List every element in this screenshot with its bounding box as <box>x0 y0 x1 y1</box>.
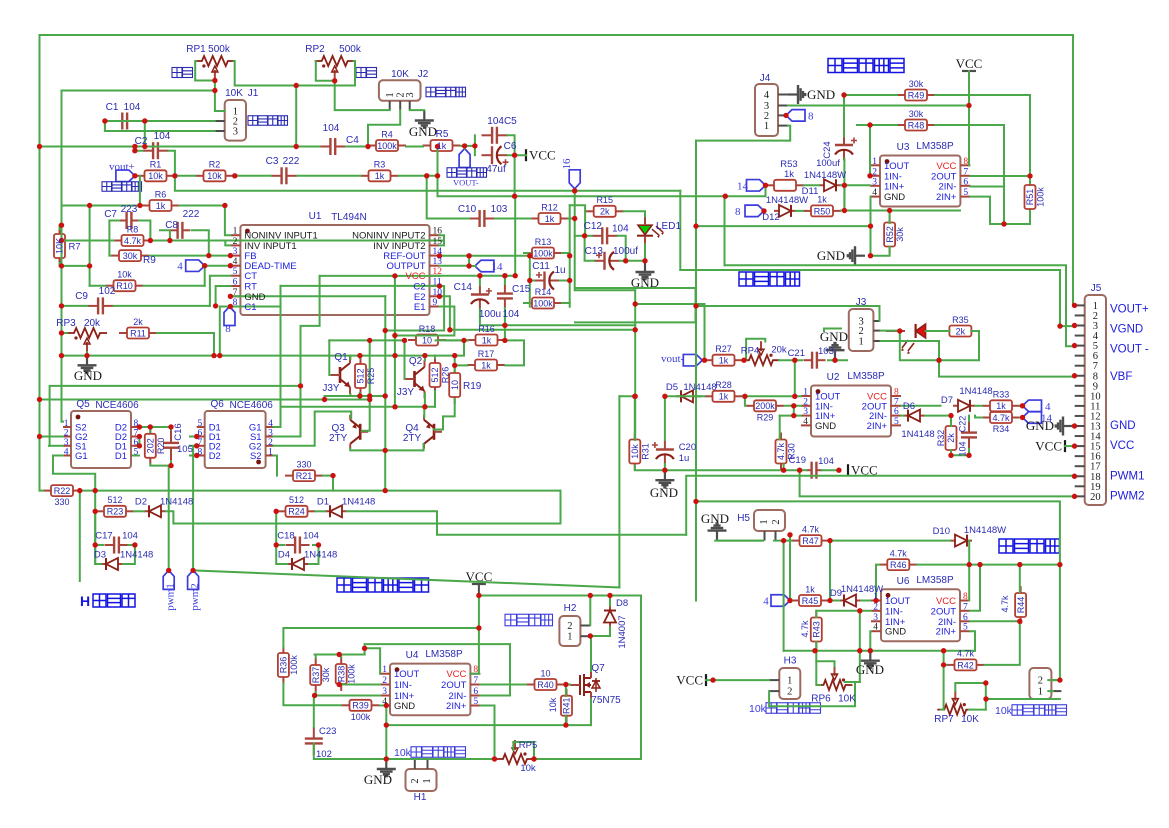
potentiometer RP6 <box>817 666 853 690</box>
resistor R13 100k <box>524 248 562 259</box>
svg-text:H5: H5 <box>737 513 750 524</box>
wire <box>190 436 197 438</box>
svg-text:R14: R14 <box>535 287 552 297</box>
svg-text:GND: GND <box>820 329 848 344</box>
junction <box>59 223 64 228</box>
junction <box>142 144 147 149</box>
label 电流取样 <box>447 168 487 178</box>
wire <box>313 544 319 546</box>
junction <box>632 394 637 399</box>
junction <box>222 203 227 208</box>
capacitor C4 104 <box>320 138 346 155</box>
svg-text:2OUT: 2OUT <box>931 606 957 617</box>
wire <box>704 359 705 361</box>
junction <box>502 273 507 278</box>
svg-text:2: 2 <box>873 602 878 612</box>
svg-text:VCC: VCC <box>1110 440 1134 452</box>
resistor R33 1k <box>982 400 1020 411</box>
wire <box>464 146 466 149</box>
capacitor C17 104 <box>105 537 129 554</box>
label 10k负温度电阻 right <box>1012 705 1067 716</box>
resistor R43 4.7k <box>811 611 822 649</box>
svg-text:4: 4 <box>872 188 877 198</box>
svg-text:4.7k: 4.7k <box>890 548 908 558</box>
wire <box>133 455 139 457</box>
svg-text:R37: R37 <box>311 667 321 684</box>
wire <box>901 405 941 407</box>
junction <box>842 208 847 213</box>
wire <box>166 511 561 523</box>
svg-text:104: 104 <box>958 441 968 456</box>
wire <box>824 329 841 332</box>
svg-text:30k: 30k <box>895 227 905 242</box>
junction <box>563 722 568 727</box>
svg-text:Q6: Q6 <box>210 399 224 410</box>
wire <box>644 244 646 261</box>
junction <box>723 194 728 199</box>
label 限压 <box>172 68 193 78</box>
wire <box>60 225 62 229</box>
wire <box>380 705 386 707</box>
junction <box>867 173 872 178</box>
op-amp U6 LM358P <box>871 589 970 641</box>
svg-text:9: 9 <box>433 298 438 308</box>
wire <box>95 544 103 546</box>
wire <box>785 405 802 407</box>
svg-text:1N4148W: 1N4148W <box>964 525 1006 536</box>
port pwm1 <box>163 570 174 589</box>
wire <box>138 437 140 446</box>
wire <box>790 600 792 602</box>
svg-text:5: 5 <box>473 697 478 707</box>
svg-text:20: 20 <box>1090 492 1101 503</box>
wire <box>870 197 872 256</box>
svg-text:10k: 10k <box>148 171 163 181</box>
junction <box>783 113 788 118</box>
wire <box>384 296 386 450</box>
junction <box>435 173 440 178</box>
wire <box>216 286 231 306</box>
wire <box>789 535 791 601</box>
wire <box>436 399 455 430</box>
wire <box>168 466 170 571</box>
junction <box>137 424 142 429</box>
svg-text:2k: 2k <box>956 326 966 336</box>
svg-text:2k: 2k <box>946 433 956 443</box>
junction <box>367 338 372 343</box>
resistor R11 2k <box>119 328 157 339</box>
svg-text:D2: D2 <box>209 451 221 462</box>
wire <box>744 396 747 406</box>
svg-text:5: 5 <box>134 448 139 458</box>
junction <box>212 88 217 93</box>
wire <box>315 692 317 696</box>
port 4 mid right <box>1023 400 1042 412</box>
junction <box>633 394 638 399</box>
wire <box>985 621 1020 665</box>
wire <box>1029 176 1031 183</box>
svg-text:VOUT-: VOUT- <box>453 178 479 188</box>
wire <box>968 541 970 565</box>
svg-text:R23: R23 <box>107 507 124 517</box>
wire <box>1029 211 1031 224</box>
junction <box>791 403 796 408</box>
svg-text:GND: GND <box>701 511 729 526</box>
wire <box>570 205 585 211</box>
svg-text:H1: H1 <box>414 792 427 803</box>
junction <box>563 682 568 687</box>
wire <box>438 195 766 197</box>
svg-text:2IN+: 2IN+ <box>446 701 467 712</box>
wire <box>717 540 763 542</box>
svg-text:J2: J2 <box>418 69 429 80</box>
resistor R52 30k <box>884 216 895 254</box>
svg-text:3: 3 <box>382 687 387 697</box>
svg-text:1: 1 <box>764 121 769 132</box>
wire <box>424 356 426 360</box>
wire <box>406 146 423 148</box>
svg-text:LM358P: LM358P <box>425 649 463 660</box>
svg-text:1N4148: 1N4148 <box>342 497 375 508</box>
svg-text:104: 104 <box>124 102 141 113</box>
svg-text:2k: 2k <box>600 207 610 217</box>
wire <box>822 469 839 471</box>
label 10k负温度电阻 fan <box>411 747 466 758</box>
wire <box>590 636 592 671</box>
svg-text:1N4148W: 1N4148W <box>766 195 808 206</box>
svg-text:VGND: VGND <box>1110 324 1143 336</box>
label 风扇接口 <box>505 614 553 626</box>
wire <box>295 86 297 147</box>
junction <box>967 562 972 567</box>
junction <box>607 593 612 598</box>
svg-text:R46: R46 <box>890 560 907 570</box>
wire <box>841 184 870 186</box>
wire <box>39 35 41 491</box>
svg-text:3: 3 <box>233 127 238 138</box>
wire <box>440 296 450 330</box>
junction <box>791 413 796 418</box>
junction <box>213 303 218 308</box>
svg-text:500k: 500k <box>339 44 362 55</box>
wire <box>440 255 530 257</box>
svg-text:4: 4 <box>382 697 387 707</box>
svg-text:5: 5 <box>197 419 202 429</box>
resistor R48 30k <box>897 120 935 131</box>
capacitor C8 222 <box>170 222 190 239</box>
wire <box>149 427 151 432</box>
wire <box>368 110 400 146</box>
junction <box>787 598 792 603</box>
title 短路保护 <box>739 272 800 286</box>
junction <box>693 499 698 504</box>
junction <box>1057 562 1062 567</box>
wire <box>620 260 626 262</box>
svg-text:GND: GND <box>807 87 835 102</box>
svg-text:H: H <box>80 593 90 609</box>
op-amp U4 LM358P <box>380 664 480 716</box>
wire <box>1020 417 1023 419</box>
capacitor C16 105 <box>163 430 179 460</box>
wire <box>157 333 214 356</box>
svg-text:C14: C14 <box>454 282 473 293</box>
junction <box>365 144 370 149</box>
diode D9 1N4148W <box>839 595 861 607</box>
svg-text:C19: C19 <box>789 455 806 466</box>
svg-text:5: 5 <box>963 188 968 198</box>
svg-text:1u: 1u <box>554 265 565 276</box>
svg-text:8: 8 <box>197 448 202 458</box>
svg-text:U3: U3 <box>897 142 910 153</box>
svg-text:30k: 30k <box>909 109 924 119</box>
wire <box>986 698 1060 700</box>
wire <box>504 325 506 340</box>
junction <box>392 404 397 409</box>
svg-text:1IN-: 1IN- <box>885 606 903 617</box>
wire <box>569 218 575 220</box>
svg-text:R40: R40 <box>537 680 554 690</box>
wire <box>506 339 515 341</box>
label 电压取样 <box>102 182 142 192</box>
junction <box>1020 403 1025 408</box>
capacitor C21 103 <box>804 352 826 369</box>
resistor R12 1k <box>531 213 569 224</box>
wire <box>204 266 206 286</box>
svg-text:1N4148: 1N4148 <box>683 382 716 393</box>
svg-text:4: 4 <box>1045 401 1051 413</box>
resistor R15 2k <box>586 206 624 217</box>
svg-text:GND: GND <box>394 701 415 712</box>
svg-text:4.7k: 4.7k <box>800 620 810 638</box>
svg-text:1: 1 <box>385 92 396 97</box>
capacitor C19 104 <box>806 462 822 479</box>
wire <box>282 406 435 408</box>
connector H2 <box>559 616 580 646</box>
svg-text:100uf: 100uf <box>816 158 840 169</box>
wire <box>939 331 979 360</box>
svg-text:1: 1 <box>233 227 238 237</box>
junction <box>384 722 389 727</box>
junction <box>424 173 429 178</box>
wire <box>210 276 231 306</box>
svg-text:C10: C10 <box>458 204 477 215</box>
svg-text:RP3: RP3 <box>56 318 76 329</box>
wire <box>404 340 406 379</box>
svg-text:8: 8 <box>473 665 478 675</box>
wire <box>169 151 175 176</box>
wire <box>479 276 481 285</box>
svg-text:8: 8 <box>134 419 139 429</box>
junction <box>274 509 279 514</box>
svg-text:C11: C11 <box>532 261 550 272</box>
junction <box>742 394 747 399</box>
junction <box>588 593 593 598</box>
junction <box>447 327 452 332</box>
svg-text:13: 13 <box>433 257 443 267</box>
diode D4 1N4148 <box>287 558 309 570</box>
junction <box>868 223 873 228</box>
wire <box>394 276 396 407</box>
svg-text:100k: 100k <box>289 655 299 675</box>
wire <box>514 155 516 196</box>
junction <box>476 625 481 630</box>
junction <box>1001 221 1006 226</box>
wire <box>434 429 436 431</box>
wire <box>562 252 570 254</box>
wire <box>479 596 641 760</box>
svg-text:C8: C8 <box>165 220 178 231</box>
wire <box>129 544 135 546</box>
junction <box>966 453 971 458</box>
junction <box>172 173 177 178</box>
svg-text:104: 104 <box>612 224 629 235</box>
mosfet Q6 NCE4606 <box>197 411 274 468</box>
junction <box>37 144 42 149</box>
junction <box>330 473 335 478</box>
svg-text:C21: C21 <box>788 348 805 359</box>
svg-text:R27: R27 <box>715 344 732 354</box>
connector H1 <box>406 769 437 791</box>
port vout+ <box>116 170 135 182</box>
svg-text:D8: D8 <box>616 598 628 609</box>
junction <box>194 434 199 439</box>
wire <box>665 395 705 397</box>
junction <box>868 253 873 258</box>
svg-text:104C5: 104C5 <box>487 116 517 127</box>
junction <box>710 677 715 682</box>
svg-text:GND: GND <box>1026 418 1054 433</box>
junction <box>384 756 389 761</box>
svg-text:R3: R3 <box>374 160 386 170</box>
svg-text:16: 16 <box>561 158 573 170</box>
junction <box>887 208 892 213</box>
wire <box>618 396 620 587</box>
svg-text:R18: R18 <box>419 324 436 334</box>
svg-text:R12: R12 <box>541 202 558 212</box>
svg-text:4: 4 <box>268 419 273 429</box>
svg-text:4: 4 <box>177 261 183 273</box>
junction <box>298 383 303 388</box>
wire <box>970 565 980 611</box>
wire <box>190 455 197 457</box>
wire <box>335 81 390 110</box>
junction <box>461 338 466 343</box>
junction <box>1027 173 1032 178</box>
junction <box>797 468 802 473</box>
svg-text:7: 7 <box>894 397 899 407</box>
svg-text:1N4148: 1N4148 <box>120 550 153 561</box>
resistor R28 1k <box>705 391 743 402</box>
svg-text:VOUT -: VOUT - <box>1110 344 1149 356</box>
wire <box>941 665 944 710</box>
svg-text:500k: 500k <box>208 44 231 55</box>
svg-text:7: 7 <box>963 602 968 612</box>
connector J3 <box>849 309 874 351</box>
junction <box>1072 303 1077 308</box>
svg-text:102: 102 <box>316 749 332 760</box>
svg-text:C1: C1 <box>106 102 119 113</box>
ground at J3 C21 <box>826 343 845 360</box>
svg-text:1: 1 <box>268 448 273 458</box>
junction <box>168 463 173 468</box>
junction <box>337 652 342 657</box>
capacitor C5 104 <box>482 127 508 144</box>
wire <box>505 324 635 326</box>
wire <box>779 416 781 439</box>
svg-text:100u: 100u <box>479 309 501 320</box>
junction <box>966 103 971 108</box>
svg-text:2: 2 <box>787 687 792 698</box>
svg-text:U2: U2 <box>827 372 840 383</box>
svg-text:VBF: VBF <box>1110 371 1132 383</box>
wire <box>350 449 423 451</box>
wire <box>320 275 440 277</box>
svg-text:LM358P: LM358P <box>847 371 885 382</box>
svg-text:100k: 100k <box>377 141 397 151</box>
resistor R10 10k <box>106 280 144 291</box>
junction <box>741 358 746 363</box>
wire <box>524 302 530 304</box>
svg-text:vout+: vout+ <box>109 161 135 173</box>
junction <box>761 208 766 213</box>
wire <box>170 427 172 430</box>
junction <box>466 253 471 258</box>
svg-text:2: 2 <box>233 237 238 247</box>
svg-text:1OUT: 1OUT <box>394 669 420 680</box>
diode D2 1N4148 <box>144 505 166 517</box>
resistor R2 10k <box>196 170 234 181</box>
junction <box>383 488 388 493</box>
wire <box>969 709 986 711</box>
wire <box>313 696 315 728</box>
svg-text:10K: 10K <box>391 69 409 80</box>
potentiometer RP7 wiper-up <box>937 691 973 715</box>
svg-text:14: 14 <box>737 181 749 193</box>
connector J2 <box>379 80 421 101</box>
transistor Q3 <box>350 415 368 449</box>
wire <box>328 340 331 375</box>
resistor R34 4.7k <box>982 412 1020 423</box>
diode D5 1N4148 <box>676 390 698 402</box>
wire <box>423 407 425 417</box>
wire <box>274 286 281 427</box>
svg-text:4.7k: 4.7k <box>802 524 820 534</box>
wire <box>889 211 891 224</box>
junction <box>228 294 233 299</box>
junction <box>59 353 64 358</box>
capacitor C12 104 <box>592 227 618 244</box>
wire <box>62 332 68 334</box>
junction <box>832 358 837 363</box>
svg-text:2IN+: 2IN+ <box>936 627 957 638</box>
junction <box>513 273 518 278</box>
potentiometer RP3 <box>67 328 107 352</box>
capacitor C13 100uf <box>594 252 620 270</box>
svg-text:R15: R15 <box>596 195 613 205</box>
svg-text:R13: R13 <box>535 237 552 247</box>
junction <box>1072 323 1077 328</box>
power VCC at C19 <box>847 464 849 476</box>
wire <box>990 223 1030 225</box>
svg-text:C15: C15 <box>512 284 531 295</box>
label 限流 <box>356 68 377 78</box>
port 14 at U1 <box>475 260 494 272</box>
junction <box>211 353 216 358</box>
resistor R49 30k <box>897 90 935 101</box>
svg-text:2IN-: 2IN- <box>938 181 956 192</box>
svg-text:pwm1: pwm1 <box>165 583 177 611</box>
wire <box>562 302 570 304</box>
